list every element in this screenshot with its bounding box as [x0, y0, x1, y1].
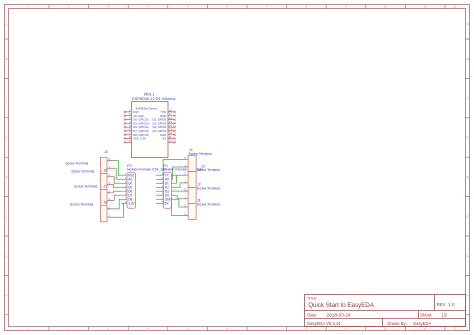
wire J4.2 to P1 TX: [163, 160, 184, 176]
header P1 pins: [161, 175, 163, 203]
svg-text:Sheet:: Sheet:: [420, 312, 432, 317]
module MDL1 left pin no-connect crosses: [124, 111, 126, 144]
wire J7.2 to P2 D6: [113, 191, 121, 193]
svg-text:Screw Terminal: Screw Terminal: [197, 186, 220, 190]
wire J2.2 to P1 D3: [171, 190, 184, 192]
svg-text:C: C: [5, 96, 7, 100]
svg-text:5V: 5V: [163, 137, 167, 141]
svg-text:1.0: 1.0: [448, 302, 455, 307]
title block: [305, 295, 466, 327]
svg-text:Quick Start to EasyEDA: Quick Start to EasyEDA: [308, 302, 375, 309]
wire J6.1 to P2 D5: [113, 184, 121, 187]
screw terminal J4 pins: [184, 159, 188, 167]
svg-text:B: B: [6, 57, 8, 61]
wire P1 GND stub: [156, 198, 161, 200]
screw terminal J6 pin numbers: [108, 173, 110, 185]
screw terminal J3 pin numbers: [184, 172, 186, 184]
screw terminal J2 pin numbers: [184, 188, 186, 200]
module MDL1 left pins: [125, 112, 132, 142]
wire J3.2 to P1 D1: [171, 175, 184, 183]
svg-text:E: E: [6, 175, 8, 179]
module MDL1 right pin numbers: [169, 108, 172, 142]
screw terminal J5 pin numbers: [108, 157, 110, 169]
header P1 pin numbers: [162, 173, 164, 204]
svg-text:A: A: [467, 22, 469, 26]
svg-text:1/2: 1/2: [441, 312, 447, 317]
svg-text:10: 10: [384, 327, 388, 331]
svg-text:11: 11: [423, 5, 426, 9]
svg-text:C: C: [466, 96, 468, 100]
svg-text:Screw Terminal: Screw Terminal: [197, 202, 220, 206]
wire J8.1 to P2 3.3V: [113, 203, 124, 217]
screw terminal J5 pins: [107, 161, 113, 169]
module MDL1 left pin numbers: [129, 108, 131, 142]
screw terminal J3 pins: [184, 175, 188, 183]
svg-text:E: E: [467, 175, 469, 179]
screw terminal J4 pin numbers: [184, 156, 186, 167]
svg-text:J6: J6: [103, 168, 107, 172]
screw terminal J8 pins: [107, 209, 113, 217]
screw terminal J6 pins: [107, 177, 113, 185]
wire J5.1 to P2 A0: [113, 168, 121, 179]
svg-text:Screw Terminal: Screw Terminal: [74, 185, 97, 189]
svg-text:2018-03-29: 2018-03-29: [327, 312, 351, 317]
module MDL1 left pin labels: [133, 110, 149, 141]
svg-text:J5: J5: [104, 150, 108, 154]
screw terminal J2 pins: [184, 191, 188, 199]
svg-text:REV: REV: [437, 302, 446, 307]
svg-text:Screw Terminal: Screw Terminal: [197, 168, 220, 172]
svg-text:ESP8266 Devkit: ESP8266 Devkit: [136, 107, 157, 111]
header P2 pins: [121, 175, 127, 203]
svg-text:Date:: Date:: [307, 312, 317, 317]
svg-text:Screw Terminal: Screw Terminal: [71, 170, 94, 174]
svg-text:G: G: [5, 254, 7, 258]
screw terminal J1 pin numbers: [184, 204, 186, 217]
header P2 pin numbers: [125, 173, 127, 204]
header P1 pin labels: [165, 173, 173, 205]
svg-text:A: A: [6, 22, 8, 26]
module MDL1 right pins: [168, 112, 175, 142]
module MDL1 right pin no-connect crosses: [174, 111, 176, 144]
svg-text:H: H: [466, 293, 468, 297]
screw terminal J4 body: [188, 156, 196, 220]
svg-text:G: G: [466, 254, 468, 258]
svg-text:3.3V: 3.3V: [128, 202, 135, 206]
wire J7.1 to P2 D7: [113, 195, 121, 200]
svg-text:J8: J8: [103, 201, 107, 205]
svg-text:12: 12: [453, 327, 457, 331]
svg-text:B: B: [467, 57, 469, 61]
wire P1 D2 stub: [156, 186, 161, 188]
svg-text:D: D: [466, 136, 468, 140]
screw terminal J8 pin numbers: [108, 205, 110, 217]
wire J3.1 to P1 D2: [171, 183, 184, 187]
svg-text:Screw Terminal: Screw Terminal: [65, 161, 88, 165]
wire P1 5V stub: [156, 202, 161, 204]
svg-text:D: D: [5, 136, 7, 140]
svg-text:3V3, 3.3V: 3V3, 3.3V: [133, 137, 145, 141]
wire J1.1 to P1 5V: [171, 203, 184, 215]
screw terminal J7 pin numbers: [108, 189, 110, 201]
wire J2.1 to P1 D4: [171, 195, 184, 199]
module MDL1 body: [132, 102, 169, 158]
svg-text:TITLE:: TITLE:: [307, 297, 317, 301]
header P1 body: [164, 172, 172, 208]
wire P1 RX stub: [156, 178, 161, 180]
svg-text:Header-Female-2.54_1x8: Header-Female-2.54_1x8: [127, 167, 166, 171]
wire J6.2 to P2 D0: [113, 177, 121, 184]
svg-text:11: 11: [423, 327, 426, 331]
screw terminal J7 pins: [107, 193, 113, 201]
module MDL1 right pin labels: [153, 110, 167, 141]
wire P1 TX stub: [156, 174, 161, 176]
svg-text:Drawn By:: Drawn By:: [387, 321, 406, 326]
svg-text:EasyEDA V5.3.14: EasyEDA V5.3.14: [307, 321, 341, 326]
svg-text:J7: J7: [103, 184, 107, 188]
svg-text:F: F: [6, 215, 8, 219]
header P2 pin labels: [128, 173, 135, 205]
svg-text:12: 12: [453, 5, 457, 9]
svg-text:10: 10: [384, 5, 388, 9]
svg-text:EasyEDA: EasyEDA: [413, 321, 431, 326]
header P2 body: [127, 172, 136, 208]
wire J1.2 to P1 GND: [171, 199, 184, 207]
wire J8.2 to P2 D8: [113, 199, 121, 209]
svg-text:H: H: [5, 293, 7, 297]
svg-text:Screw Terminal: Screw Terminal: [70, 203, 93, 207]
wire J4.1 to P1 RX: [171, 167, 184, 179]
wire P1 D4 stub: [156, 194, 161, 196]
wire P1 D3 stub: [156, 190, 161, 192]
screw terminal J5 body: [101, 157, 108, 221]
svg-text:F: F: [467, 215, 469, 219]
screw terminal J1 pins: [184, 207, 188, 216]
wire P1 D1 stub: [156, 182, 161, 184]
wire J5.2 to P2 RST: [113, 161, 121, 176]
svg-text:ESP8266-12 D1 Wemos: ESP8266-12 D1 Wemos: [132, 96, 176, 101]
